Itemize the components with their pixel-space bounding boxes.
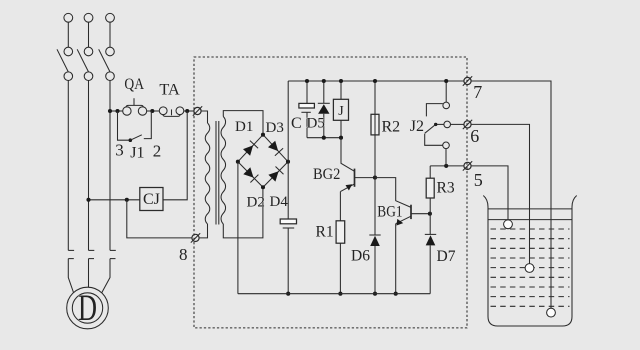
node BG1 base bbox=[428, 212, 432, 216]
wire terminal 5 to shallow electrode bbox=[471, 166, 508, 220]
pushbutton QA contact left bbox=[123, 107, 131, 115]
svg-text:J: J bbox=[338, 104, 344, 119]
contactor coil CJ bbox=[140, 188, 163, 211]
wire main control line bbox=[110, 110, 123, 112]
diode D6 bbox=[369, 235, 380, 246]
node D5 bottom bbox=[322, 136, 326, 140]
wire bbox=[340, 120, 342, 137]
node J tap bbox=[339, 79, 343, 83]
wire J1 branch right bbox=[144, 111, 152, 139]
electrode 5 (shallow) bbox=[504, 220, 513, 229]
svg-text:D7: D7 bbox=[437, 248, 456, 265]
transistor BG2 emitter bbox=[340, 184, 354, 192]
terminal on box border (top left) bbox=[194, 107, 201, 114]
CJ main contact phase 1 bbox=[68, 250, 74, 258]
knife switch QF pole 3 upper contact bbox=[106, 47, 115, 56]
CJ main contact phase 2 bbox=[89, 250, 95, 258]
wire bbox=[323, 114, 325, 138]
relay contact J2 blade bbox=[425, 124, 436, 133]
diode D4 bbox=[268, 167, 283, 182]
terminal 5 bbox=[464, 162, 471, 169]
node BG2 base bbox=[373, 176, 377, 180]
knife switch QF pole 1 blade bbox=[57, 49, 68, 72]
wire DC minus rail bbox=[237, 162, 239, 294]
node phase2 tap bbox=[86, 198, 90, 202]
wire bbox=[147, 110, 159, 112]
svg-text:8: 8 bbox=[179, 245, 188, 264]
wire top supply bus bbox=[288, 80, 464, 82]
wire bbox=[445, 81, 447, 102]
motor D inner circle bbox=[72, 293, 102, 323]
svg-text:CJ: CJ bbox=[143, 191, 160, 208]
svg-text:D6: D6 bbox=[351, 248, 370, 265]
svg-text:TA: TA bbox=[159, 81, 180, 98]
node bridge DC minus bbox=[236, 160, 240, 164]
relay contact J2 common terminal bbox=[444, 121, 451, 128]
knife switch QF pole 2 blade bbox=[77, 49, 88, 72]
diode D1 bbox=[243, 141, 258, 156]
wire terminal 7 to deep electrode bbox=[471, 81, 551, 308]
svg-text:D3: D3 bbox=[266, 120, 284, 136]
relay coil J bbox=[333, 99, 348, 120]
node bridge AC bottom bbox=[261, 185, 265, 189]
node bridge DC plus bbox=[286, 160, 290, 164]
svg-text:D1: D1 bbox=[235, 119, 253, 135]
wire DC plus to top bus bbox=[287, 81, 289, 162]
node D5 tap bbox=[322, 79, 326, 83]
wire to motor right bbox=[102, 259, 110, 293]
wire J2 lower throw bbox=[425, 134, 443, 146]
current transformer TA winding bbox=[163, 109, 181, 116]
svg-text:R1: R1 bbox=[316, 223, 334, 240]
knife switch QF pole 1 upper contact bbox=[64, 47, 73, 56]
diode D7 bbox=[425, 234, 436, 245]
diode D5 bbox=[318, 103, 330, 114]
node bridge AC top bbox=[261, 133, 265, 137]
transistor BG1 base bar bbox=[410, 205, 412, 219]
wire terminal 8 to primary bbox=[199, 224, 207, 238]
wire bbox=[109, 22, 111, 47]
knife switch QF pole 2 lower contact bbox=[84, 72, 93, 81]
transformer primary winding bbox=[205, 123, 210, 224]
svg-text:6: 6 bbox=[470, 126, 479, 146]
node filter cap to bus bbox=[286, 292, 290, 296]
wire relay node bbox=[307, 137, 341, 139]
wire bbox=[184, 110, 194, 112]
wire bbox=[67, 22, 69, 47]
terminal 8 bbox=[192, 234, 199, 241]
knife switch QF pole 3 lower contact bbox=[106, 72, 115, 81]
knife switch QF pole 2 upper contact bbox=[84, 47, 93, 56]
transistor BG2 base bar bbox=[354, 169, 356, 187]
svg-text:3: 3 bbox=[115, 141, 124, 160]
knife switch QF pole 1 lower contact bbox=[64, 72, 73, 81]
electrode 7 (deep) bbox=[547, 308, 556, 317]
node J1 branch left bbox=[115, 109, 119, 113]
supply terminal L1 bbox=[64, 13, 73, 22]
wire bbox=[429, 166, 431, 178]
node J2 top tap bbox=[444, 79, 448, 83]
wire bbox=[88, 22, 90, 47]
terminal 7 bbox=[464, 77, 471, 84]
tank wall bbox=[483, 196, 576, 327]
node phase3 tap bbox=[108, 109, 112, 113]
resistor R2 bbox=[371, 114, 379, 135]
relay contact J1 blade bbox=[130, 135, 142, 140]
wire BG1 emitter to bus bbox=[395, 224, 397, 294]
wire R2 to BG2 base bbox=[374, 135, 376, 178]
wire DC plus rail bbox=[287, 162, 289, 219]
water dashed lines bbox=[491, 229, 570, 306]
wire common to terminal 6 bbox=[451, 123, 464, 125]
wire J2 common lead bbox=[436, 123, 444, 125]
wire bbox=[429, 214, 431, 235]
wire bbox=[445, 149, 447, 166]
wire bbox=[429, 245, 431, 293]
knife switch QF pole 3 blade bbox=[99, 49, 110, 72]
relay contact J2 lower terminal bbox=[443, 142, 450, 149]
wire bbox=[323, 81, 325, 103]
svg-text:BG2: BG2 bbox=[313, 166, 340, 183]
electrode 6 (middle) bbox=[525, 264, 534, 273]
wire terminal5 line bbox=[430, 165, 464, 167]
wire bbox=[306, 81, 308, 103]
wire to terminal 8 bbox=[127, 200, 192, 238]
wire J2 upper throw bbox=[426, 104, 443, 117]
svg-text:D2: D2 bbox=[247, 195, 265, 211]
wire bbox=[374, 81, 376, 114]
svg-text:R3: R3 bbox=[437, 180, 455, 197]
node J2 pivot bbox=[434, 123, 437, 126]
node CJ coil tap bbox=[185, 109, 189, 113]
wire bbox=[374, 178, 376, 235]
wire R3 to BG1 base bbox=[429, 198, 431, 214]
wire bridge diamond bbox=[238, 135, 288, 188]
svg-text:BG1: BG1 bbox=[377, 204, 402, 221]
pushbutton QA actuator bbox=[126, 98, 144, 107]
current transformer TA terminal left bbox=[159, 107, 167, 115]
wire BG2 emitter to R1 bbox=[339, 192, 341, 221]
current transformer TA terminal right bbox=[176, 107, 184, 115]
svg-text:C: C bbox=[291, 115, 302, 132]
wire CJ coil to main line bbox=[163, 111, 187, 200]
wire phase 2 bbox=[88, 81, 90, 251]
svg-text:J1: J1 bbox=[130, 144, 144, 161]
node J2 lower tap bbox=[444, 164, 448, 168]
wire R1 to bus bbox=[339, 243, 341, 294]
resistor R3 bbox=[426, 178, 434, 198]
filter capacitor bbox=[280, 219, 296, 294]
wire to motor left bbox=[68, 259, 73, 293]
svg-text:D5: D5 bbox=[307, 116, 325, 132]
wire J1 branch left bbox=[118, 111, 129, 140]
terminal 6 bbox=[464, 121, 471, 128]
node D6 bus bbox=[373, 292, 377, 296]
node terminal8 branch bbox=[125, 198, 129, 202]
wire bbox=[374, 246, 376, 294]
svg-text:J2: J2 bbox=[410, 118, 424, 135]
relay contact J2 upper terminal bbox=[443, 102, 450, 109]
svg-text:D: D bbox=[78, 288, 97, 329]
motor D outer circle bbox=[67, 287, 109, 329]
wire secondary bottom to bridge AC2 bbox=[223, 189, 263, 238]
wire BG2 collector bbox=[341, 138, 355, 172]
wire BG2 base to BG1 collector bbox=[375, 178, 411, 208]
wire secondary top to bridge AC1 bbox=[223, 111, 263, 133]
wire bbox=[340, 81, 342, 99]
node BG1 emitter bus bbox=[394, 292, 398, 296]
node J1 branch right bbox=[150, 109, 154, 113]
wire to motor middle bbox=[88, 259, 90, 288]
svg-text:2: 2 bbox=[153, 141, 162, 160]
capacitor C bbox=[299, 103, 315, 112]
diode D2 bbox=[243, 167, 258, 182]
svg-text:QA: QA bbox=[124, 76, 144, 93]
wire phase 1 bbox=[67, 81, 69, 251]
node R2 tap bbox=[373, 79, 377, 83]
svg-text:5: 5 bbox=[474, 170, 483, 190]
transistor BG1 emitter bbox=[396, 216, 411, 225]
node J bottom bbox=[339, 136, 343, 140]
dashed controller enclosure bbox=[194, 57, 467, 328]
wire terminal 6 to middle electrode bbox=[471, 124, 529, 263]
wire phase 3 bbox=[109, 81, 111, 251]
node R1 bus bbox=[338, 292, 342, 296]
node C tap bbox=[305, 79, 309, 83]
svg-text:D4: D4 bbox=[270, 194, 289, 210]
resistor R1 bbox=[336, 221, 345, 243]
pushbutton QA contact right bbox=[138, 107, 146, 115]
transformer secondary winding bbox=[221, 117, 226, 225]
wire bottom bus bbox=[238, 293, 430, 295]
svg-text:7: 7 bbox=[473, 82, 482, 102]
relay contact J1 pivot bbox=[129, 138, 133, 142]
wire bbox=[306, 112, 308, 137]
supply terminal L2 bbox=[84, 13, 93, 22]
wire to transformer primary bbox=[201, 111, 207, 123]
wire BG1 base lead bbox=[411, 213, 430, 215]
supply terminal L3 bbox=[106, 13, 115, 22]
wire BG2 base lead bbox=[355, 177, 376, 179]
svg-text:R2: R2 bbox=[382, 119, 401, 136]
CJ main contact phase 3 bbox=[110, 250, 116, 258]
wire phase2 to CJ coil bbox=[89, 199, 140, 201]
transformer core bbox=[216, 121, 219, 225]
water surface line bbox=[488, 219, 572, 221]
diode D3 bbox=[268, 141, 283, 156]
tank rim line bbox=[488, 208, 572, 210]
